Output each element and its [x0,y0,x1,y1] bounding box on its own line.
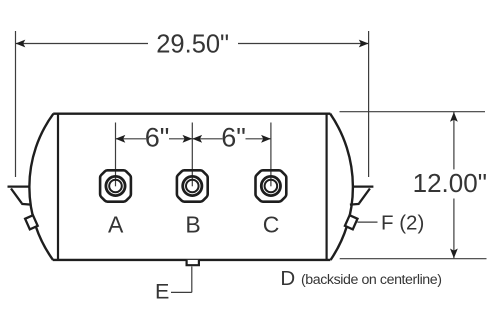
port B centerline [191,123,193,187]
svg-text:F (2): F (2) [381,211,424,234]
leader line E horizontal [171,291,192,293]
left weld seam [57,114,59,260]
12.00" extension line bottom [340,258,487,260]
arrowhead right of 29.50" [359,40,369,48]
arrowhead up [450,112,458,122]
tank top line [53,112,330,114]
arrowhead down [450,249,458,259]
6" dimension line B-C left segment [192,138,222,140]
svg-text:C: C [263,212,280,238]
right F port square [345,215,358,229]
port B bung octagon [177,170,208,201]
arrowhead left of 29.50" [16,40,26,48]
12.00" extension line top [340,111,486,113]
svg-text:B: B [185,212,200,238]
dimension 29.50" extension line right [368,31,370,177]
6" dimension line B-C right segment [246,138,271,140]
left dome head [29,114,53,260]
right dome head [330,114,353,260]
12.00" dimension line upper segment [453,112,455,169]
right end spout [350,187,374,205]
left F port square [25,215,38,229]
right weld seam [326,114,328,260]
svg-text:D: D [280,267,295,290]
svg-text:29.50": 29.50" [156,31,229,59]
dimension 29.50" extension line left [15,31,17,177]
arrowhead at C [261,135,271,143]
leader line F [357,221,377,223]
svg-text:E: E [155,279,169,303]
port A bung octagon [100,170,131,201]
svg-text:6": 6" [221,122,246,152]
dimension 29.50" line left segment [16,43,149,45]
port C bung octagon [256,170,287,201]
left end spout [8,187,32,205]
arrowhead right toward B [183,135,193,143]
port A centerline [115,123,117,187]
6" dimension line A-B left segment [116,138,147,140]
12.00" dimension line lower segment [453,199,455,259]
leader line E vertical [191,267,193,293]
arrowhead at A [116,135,126,143]
svg-text:6": 6" [145,122,170,152]
svg-text:12.00": 12.00" [413,168,487,198]
dimension 29.50" line right segment [238,43,369,45]
port C centerline [270,123,272,187]
6" dimension line A-B right segment [169,138,192,140]
port E stub [187,260,199,265]
arrowhead at B [192,135,202,143]
svg-text:A: A [108,212,124,238]
tank bottom line [53,259,331,261]
svg-text:(backside on centerline): (backside on centerline) [301,272,442,288]
